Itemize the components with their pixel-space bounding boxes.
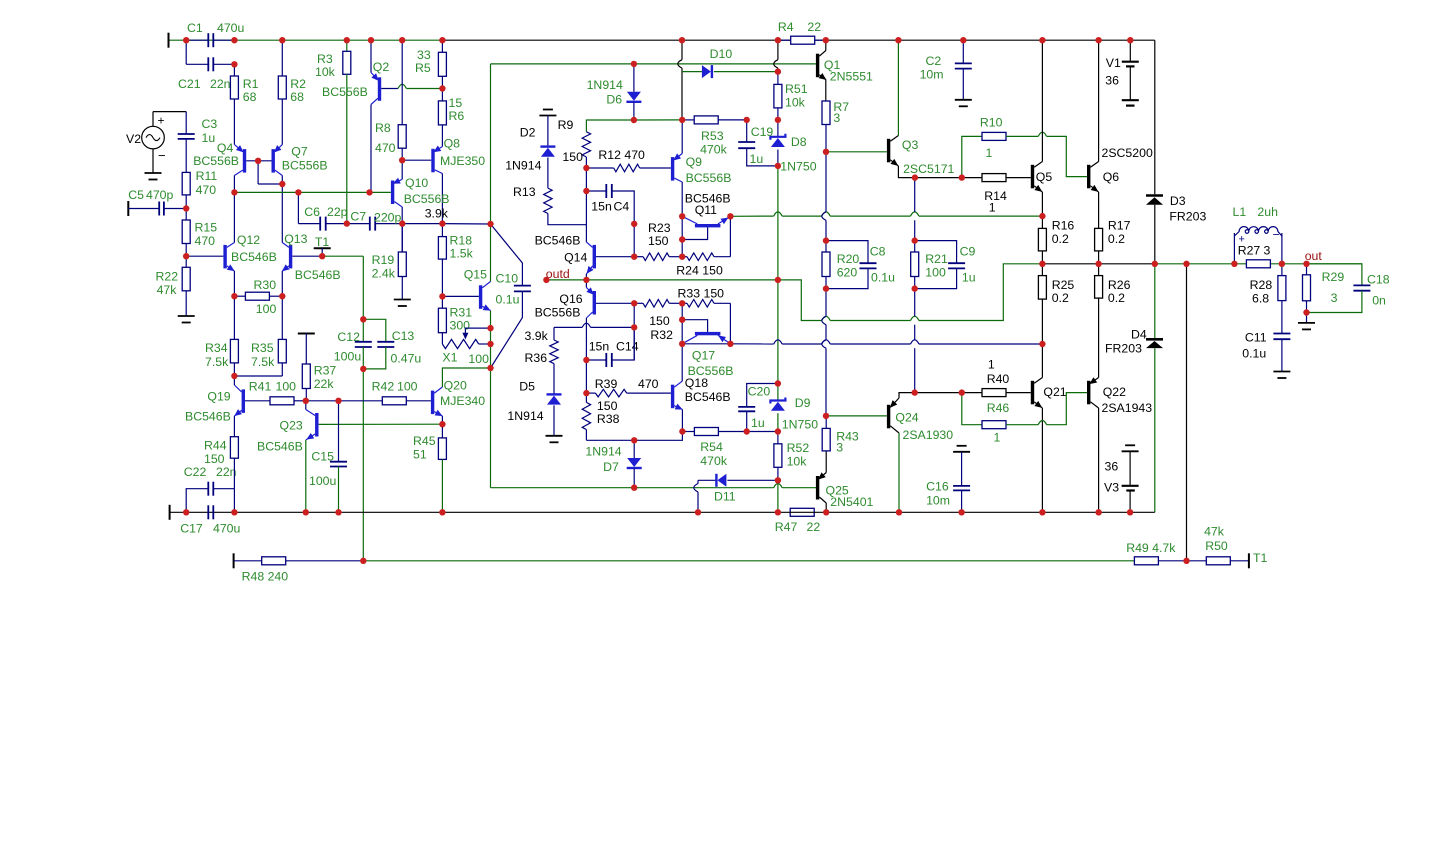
svg-text:D11: D11 <box>714 490 736 504</box>
wire R48 line <box>233 553 235 568</box>
svg-text:D7: D7 <box>603 460 619 474</box>
wire Q3 collector green <box>897 40 899 135</box>
diode D7 <box>633 440 635 458</box>
svg-text:68: 68 <box>243 90 257 104</box>
resistor R9 zigzag <box>582 132 590 157</box>
svg-text:2uh: 2uh <box>1257 205 1278 219</box>
junction dot R8 bottom <box>399 157 405 163</box>
resistor R18 <box>441 224 443 237</box>
svg-text:MJE340: MJE340 <box>440 394 485 408</box>
junction dots Q11 nodes <box>679 213 685 219</box>
svg-text:Q10: Q10 <box>405 176 428 190</box>
svg-text:V2: V2 <box>126 132 141 146</box>
wire outd feedback path <box>586 280 821 321</box>
svg-text:150: 150 <box>597 399 618 413</box>
resistor R25 <box>1041 264 1043 276</box>
junction dots R9-R12 and C4 <box>583 165 589 171</box>
junction dots middle R9 line <box>631 61 637 67</box>
wire Q20 emitter to R45 <box>441 416 443 424</box>
transistor Q11 horizontal <box>695 224 721 227</box>
wire R38 bottom link <box>586 432 682 441</box>
transistor Q1 2N5551 <box>816 54 819 77</box>
svg-text:R4: R4 <box>778 20 794 34</box>
wire R36 top link <box>554 326 582 328</box>
wire Q19 emitter to R44 <box>233 416 235 437</box>
junction dots green edge <box>487 221 493 227</box>
diode D2 <box>547 116 549 147</box>
svg-text:C7: C7 <box>350 210 366 224</box>
input terminal top-left <box>168 33 170 48</box>
svg-text:2SA1943: 2SA1943 <box>1102 401 1153 415</box>
svg-text:C17: C17 <box>180 522 203 536</box>
resistor R1 <box>233 64 235 76</box>
svg-text:Q19: Q19 <box>207 390 230 404</box>
resistor R29 <box>1306 264 1308 275</box>
resistor R34 <box>233 296 235 339</box>
svg-text:1N914: 1N914 <box>507 409 543 423</box>
wire Q5 collector <box>1041 40 1043 161</box>
svg-text:1: 1 <box>989 201 996 215</box>
resistor R44 <box>230 437 238 459</box>
svg-text:R12 470: R12 470 <box>598 148 645 162</box>
svg-text:0.2: 0.2 <box>1108 232 1125 246</box>
svg-text:15: 15 <box>449 96 463 110</box>
svg-text:R25: R25 <box>1052 278 1075 292</box>
wire R41 node to R42 <box>306 400 339 402</box>
svg-text:1N914: 1N914 <box>587 78 623 92</box>
capacitor C17 <box>207 505 209 519</box>
svg-text:Q21: Q21 <box>1043 385 1066 399</box>
wire R7 chain down <box>825 152 827 212</box>
wire Q3 emitter <box>898 166 961 178</box>
resistor R43 <box>822 428 830 451</box>
wire C22 node down <box>233 489 235 513</box>
wire Q21 emitter to rail <box>1041 408 1043 512</box>
resistor R38 zigzag <box>585 393 587 402</box>
svg-text:Q18: Q18 <box>685 376 708 390</box>
resistor R14 <box>982 174 1006 182</box>
junction dots mirror bus <box>231 189 237 195</box>
wire zener string down <box>777 166 779 280</box>
capacitor C18 <box>1307 264 1362 286</box>
svg-text:51: 51 <box>413 448 427 462</box>
svg-text:10k: 10k <box>785 96 806 110</box>
wire bias bottom to R25 <box>682 343 730 345</box>
ground under D5 <box>546 435 563 437</box>
svg-text:Q8: Q8 <box>444 137 461 151</box>
capacitor C21 <box>207 57 209 71</box>
junction dot R48 green node <box>360 558 366 564</box>
svg-text:22k: 22k <box>314 377 335 391</box>
svg-text:BC546B: BC546B <box>295 268 341 282</box>
svg-text:C11: C11 <box>1245 331 1267 345</box>
wire Q13 base to C12 <box>362 256 364 319</box>
svg-text:Q17: Q17 <box>692 349 715 363</box>
diode D10 <box>702 65 711 78</box>
svg-text:47k: 47k <box>1204 525 1225 539</box>
wire Q18 emitter to R54 <box>681 410 683 432</box>
wire R48 to R49 green <box>363 560 1134 562</box>
junction dots bottom rail <box>183 509 189 515</box>
svg-text:R22: R22 <box>156 270 179 284</box>
resistor R40 <box>915 392 982 394</box>
svg-text:22n: 22n <box>216 465 237 479</box>
svg-text:Q11: Q11 <box>695 203 717 217</box>
svg-text:BC546B: BC546B <box>685 390 731 404</box>
capacitor C6 <box>298 223 320 225</box>
wire green loop left edge <box>490 64 492 282</box>
wire R23 Q14 base <box>596 256 634 258</box>
transistor Q5 <box>1031 165 1034 189</box>
transistor Q8 MJE350 <box>431 149 434 173</box>
resistor R24 zigzag <box>682 256 687 258</box>
svg-text:C18: C18 <box>1367 273 1390 287</box>
svg-text:C6: C6 <box>304 205 320 219</box>
inductor L1 <box>1234 227 1282 236</box>
svg-text:1: 1 <box>986 146 993 160</box>
svg-text:2N5551: 2N5551 <box>830 70 873 84</box>
svg-text:FR203: FR203 <box>1169 210 1206 224</box>
svg-text:Q20: Q20 <box>444 379 467 393</box>
svg-text:100: 100 <box>276 380 297 394</box>
junction dot Q20 emitter Q23 base <box>439 421 445 427</box>
svg-text:C1: C1 <box>187 21 203 35</box>
wire Q23 emitter to rail <box>305 440 307 512</box>
battery V3 <box>1125 444 1135 446</box>
wire output node rail <box>1042 263 1154 265</box>
svg-text:R26: R26 <box>1108 278 1131 292</box>
svg-text:Q7: Q7 <box>291 145 308 159</box>
svg-text:470: 470 <box>638 377 659 391</box>
junction dot Q7 collector tie <box>279 181 285 187</box>
resistor R39 zigzag <box>586 392 595 394</box>
capacitor C12 <box>362 319 364 342</box>
transistor Q12 <box>186 255 223 257</box>
junction dots C4 vertical <box>631 221 637 227</box>
junction dots driver emitters <box>912 174 918 180</box>
svg-text:R38: R38 <box>597 412 620 426</box>
capacitor C9 <box>915 241 957 264</box>
wire D10 branch <box>682 71 702 73</box>
resistor R37 <box>298 333 315 335</box>
zener diode D8 1N750 <box>777 120 779 137</box>
wire C4 vertical <box>633 224 635 257</box>
resistor R32 zigzag <box>682 302 687 304</box>
svg-text:D9: D9 <box>795 396 811 410</box>
resistor R8 <box>401 40 403 125</box>
svg-text:R42: R42 <box>372 380 395 394</box>
svg-text:620: 620 <box>837 266 858 280</box>
wire driver mid vertical <box>914 178 916 212</box>
transistor Q24 2SA1930 <box>887 405 890 429</box>
svg-text:10k: 10k <box>787 455 808 469</box>
junction dot R15-Q12 base <box>183 253 189 259</box>
svg-text:R9: R9 <box>558 118 574 132</box>
svg-text:R27: R27 <box>1238 244 1261 258</box>
svg-text:−: − <box>1273 228 1280 242</box>
svg-text:R17: R17 <box>1108 219 1131 233</box>
wire C21 branch <box>185 40 187 64</box>
wire Q1 emitter to R7 <box>825 80 827 102</box>
svg-text:1u: 1u <box>202 131 216 145</box>
wire C14 vertical <box>633 303 635 360</box>
resistor R31 <box>441 296 443 308</box>
svg-text:R18: R18 <box>450 234 473 248</box>
resistor R51 <box>777 72 779 85</box>
transistor Q25 2N5401 <box>816 476 819 500</box>
svg-text:D6: D6 <box>606 93 622 107</box>
svg-text:R33 150: R33 150 <box>678 287 725 301</box>
wire V+ top bus <box>169 39 443 41</box>
resistor R11 <box>182 172 190 195</box>
svg-text:R37: R37 <box>314 364 337 378</box>
svg-text:R8: R8 <box>375 121 391 135</box>
svg-text:BC556B: BC556B <box>193 154 239 168</box>
wire Q21 collector <box>1041 344 1043 378</box>
svg-text:R21: R21 <box>925 252 948 266</box>
junction dots R41 R42 nodes <box>303 398 309 404</box>
svg-text:7.5k: 7.5k <box>251 355 275 369</box>
svg-text:V1: V1 <box>1106 56 1121 70</box>
svg-text:BC546B: BC546B <box>185 410 231 424</box>
svg-text:R34: R34 <box>205 341 228 355</box>
svg-text:C16: C16 <box>926 480 949 494</box>
resistor R46 <box>962 393 982 425</box>
svg-text:150: 150 <box>648 234 669 248</box>
capacitor C10 with diagonals <box>491 224 523 286</box>
svg-text:BC556B: BC556B <box>535 306 581 320</box>
resistor R48 <box>262 557 286 565</box>
wire Q24 emitter up <box>899 393 915 398</box>
svg-text:R54: R54 <box>700 440 723 454</box>
transistor Q23 <box>315 413 318 437</box>
svg-text:150: 150 <box>562 150 583 164</box>
diode D11 line <box>698 479 716 481</box>
svg-text:Q6: Q6 <box>1103 170 1120 184</box>
svg-text:1: 1 <box>988 358 995 372</box>
transistor Q15 <box>442 295 479 297</box>
diode D6 <box>633 64 635 92</box>
wire R52 bottom to rail <box>777 480 779 512</box>
svg-text:R23: R23 <box>648 221 671 235</box>
svg-text:3: 3 <box>1331 291 1338 305</box>
wire R10 branch <box>962 136 982 177</box>
svg-text:C22: C22 <box>184 465 207 479</box>
transistor Q10 <box>391 181 394 205</box>
svg-text:C9: C9 <box>960 245 976 259</box>
junction dot D7 bottom green edge <box>631 485 637 491</box>
svg-text:0.2: 0.2 <box>1108 291 1125 305</box>
svg-text:R30: R30 <box>254 278 277 292</box>
junction dot Q4-Q7 bases <box>255 158 261 164</box>
svg-text:T1: T1 <box>315 235 330 249</box>
svg-text:1N914: 1N914 <box>585 445 621 459</box>
svg-text:Q13: Q13 <box>284 232 307 246</box>
source V2 <box>142 126 165 149</box>
svg-text:R47: R47 <box>775 520 798 534</box>
svg-text:R49 4.7k: R49 4.7k <box>1126 541 1176 555</box>
svg-text:0.2: 0.2 <box>1052 232 1069 246</box>
wire Q20 collector link <box>442 368 490 387</box>
svg-text:C2: C2 <box>926 54 942 68</box>
svg-text:BC546B: BC546B <box>535 234 581 248</box>
wire R13 bottom <box>548 214 587 225</box>
svg-text:C3: C3 <box>202 117 218 131</box>
wire Q13 base <box>292 255 322 257</box>
wire R9 top <box>586 120 682 132</box>
svg-text:1N914: 1N914 <box>505 159 541 173</box>
diode D4 FR203 <box>1154 264 1156 338</box>
svg-text:Q16: Q16 <box>559 292 582 306</box>
capacitor C13 <box>363 319 386 342</box>
capacitor C7 <box>347 223 370 225</box>
resistor R42 <box>382 397 406 405</box>
wire Q18 collector <box>681 344 683 381</box>
resistor R49 <box>1134 557 1158 565</box>
junction dots R7 chain <box>823 149 829 155</box>
svg-text:1u: 1u <box>962 271 976 285</box>
zener diode D9 1N750 <box>777 384 779 401</box>
svg-text:1u: 1u <box>750 152 764 166</box>
svg-text:1u: 1u <box>751 416 765 430</box>
capacitor C15 <box>338 401 340 462</box>
resistor R4 <box>778 39 791 41</box>
svg-text:150: 150 <box>649 314 670 328</box>
wire Q7 collector <box>281 176 283 243</box>
resistor R28 <box>1281 264 1283 276</box>
svg-text:R11: R11 <box>196 169 218 183</box>
wire Q3 base <box>826 151 887 153</box>
wire Q19 collector <box>233 376 235 385</box>
upside-down ground above D2 <box>543 109 553 111</box>
svg-text:D4: D4 <box>1131 328 1147 342</box>
resistor R22 <box>185 256 187 267</box>
svg-text:470p: 470p <box>146 188 174 202</box>
svg-text:1.5k: 1.5k <box>450 247 474 261</box>
wire Q9 collector chain <box>681 182 683 216</box>
wire Q5 emitter to R16 <box>1041 192 1043 216</box>
svg-text:FR203: FR203 <box>1105 342 1142 356</box>
transistor Q21 <box>1031 381 1034 405</box>
resistor R3 <box>346 40 348 51</box>
svg-text:D2: D2 <box>520 126 536 140</box>
svg-text:R41: R41 <box>249 380 272 394</box>
resistor R21 <box>914 241 916 252</box>
svg-text:100u: 100u <box>334 350 362 364</box>
capacitor C4 <box>586 190 606 192</box>
transistor Q22 2SA1943 <box>1087 381 1090 405</box>
svg-text:1N750: 1N750 <box>780 160 816 174</box>
svg-text:−: − <box>158 148 166 163</box>
wire Q12 emitter <box>233 271 235 296</box>
resistor R5 <box>441 40 443 52</box>
svg-text:0.47u: 0.47u <box>391 352 422 366</box>
junction dot D11-R52 <box>775 477 781 483</box>
svg-text:R53: R53 <box>701 129 724 143</box>
resistor R53 <box>682 119 694 121</box>
resistor R23 zigzag <box>643 253 669 261</box>
wire Q14 emitter to outd <box>585 274 587 280</box>
svg-text:R45: R45 <box>413 434 436 448</box>
svg-text:1: 1 <box>994 431 1001 445</box>
junction dots top bus <box>183 37 189 43</box>
resistor R47 <box>790 508 814 516</box>
resistor R7 <box>822 101 830 125</box>
svg-text:R51: R51 <box>785 82 808 96</box>
junction dots R51 D8 <box>775 68 781 74</box>
potentiometer X1 <box>442 339 478 348</box>
ground under C11 <box>1273 371 1290 373</box>
svg-text:2N5401: 2N5401 <box>830 495 873 509</box>
transistor Q7 <box>272 149 275 173</box>
capacitor C5 <box>128 208 159 210</box>
svg-text:470: 470 <box>196 183 217 197</box>
svg-text:C19: C19 <box>751 125 774 139</box>
svg-text:C14: C14 <box>616 340 639 354</box>
capacitor C2 <box>962 40 964 63</box>
wire Q17 verticals <box>681 303 683 344</box>
junction dots outd <box>543 277 549 283</box>
svg-text:15n: 15n <box>589 340 610 354</box>
junction dots R30 ends <box>231 293 237 299</box>
svg-text:470: 470 <box>375 141 396 155</box>
svg-text:R5: R5 <box>415 61 431 75</box>
svg-text:R44: R44 <box>204 439 227 453</box>
wire Q6 collector <box>1098 40 1100 161</box>
capacitor C20 <box>747 384 778 407</box>
wire green loop top edge <box>491 63 634 65</box>
transistor Q19 <box>242 389 245 413</box>
junction dots R16 R25 chain <box>1039 213 1045 219</box>
resistor R15 <box>185 209 187 221</box>
transistor Q20 MJE340 <box>431 391 434 415</box>
svg-text:C4: C4 <box>614 200 630 214</box>
svg-text:D5: D5 <box>519 380 535 394</box>
svg-text:D10: D10 <box>710 47 733 61</box>
wire Q23 base <box>319 423 443 425</box>
terminal T1 right <box>1248 553 1250 568</box>
svg-text:L1: L1 <box>1233 205 1247 219</box>
transistor Q6 <box>1087 165 1090 189</box>
resistor R30 <box>234 295 245 297</box>
wire Q24 base <box>826 415 887 417</box>
diode D3 FR203 <box>1146 194 1163 197</box>
wire Q4-Q7 base tie <box>246 160 271 162</box>
svg-text:R15: R15 <box>195 221 218 235</box>
svg-text:Q12: Q12 <box>237 233 260 247</box>
svg-text:470k: 470k <box>700 454 728 468</box>
svg-text:15n: 15n <box>591 200 612 214</box>
svg-text:R31: R31 <box>450 306 473 320</box>
svg-text:Q3: Q3 <box>902 138 919 152</box>
capacitor C22 <box>186 489 208 513</box>
svg-text:47k: 47k <box>157 283 178 297</box>
svg-text:100: 100 <box>925 266 946 280</box>
svg-text:10m: 10m <box>920 68 944 82</box>
ground under R19 <box>394 299 411 301</box>
svg-text:R28: R28 <box>1250 278 1273 292</box>
svg-text:Q5: Q5 <box>1036 170 1053 184</box>
svg-text:C8: C8 <box>870 245 886 259</box>
junction dot Q2 base R5 R6 <box>439 85 445 91</box>
svg-text:150: 150 <box>204 452 225 466</box>
svg-text:2SA1930: 2SA1930 <box>903 428 954 442</box>
svg-text:Q15: Q15 <box>464 268 487 282</box>
transistor Q14 <box>593 245 596 269</box>
junction dot C3-R11-C5-R15 <box>183 205 189 211</box>
resistor R50 <box>1187 560 1207 562</box>
svg-text:0.1u: 0.1u <box>496 293 520 307</box>
